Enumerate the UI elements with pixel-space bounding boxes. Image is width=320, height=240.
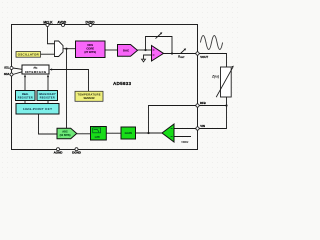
pin DGND <box>75 148 78 151</box>
pin SDA <box>10 73 13 76</box>
pin VOUT <box>196 52 199 55</box>
wire LPF to ADC <box>77 133 91 135</box>
svg-text:DDS: DDS <box>87 43 93 47</box>
impedance arrow <box>216 67 233 97</box>
pin DVDD <box>89 24 92 27</box>
wire mux output to DDS <box>63 48 76 50</box>
wire real register to I2C arrow <box>24 75 26 90</box>
LPF block <box>91 127 107 141</box>
op-amp U1 transmit <box>152 46 164 62</box>
svg-text:VDD/2: VDD/2 <box>181 141 189 144</box>
pin SCL <box>10 67 13 70</box>
svg-text:RFB: RFB <box>200 101 206 105</box>
wire GAIN to LPF <box>106 132 121 134</box>
sine wave <box>200 36 222 50</box>
external wire RFB <box>199 105 226 107</box>
chip outline AD5933 <box>12 25 198 150</box>
oscillator box <box>16 52 41 58</box>
node RFB/Z junction <box>225 104 227 106</box>
GAIN block <box>121 127 136 139</box>
DAC <box>118 45 138 57</box>
ground symbol <box>142 59 146 62</box>
switch at VOUT <box>181 49 186 54</box>
node feedback tap <box>144 49 146 51</box>
wire RFB internal to amp output <box>149 106 197 134</box>
wire DFT to imag register <box>47 101 49 104</box>
svg-text:REGISTER: REGISTER <box>40 96 55 99</box>
mux <box>55 41 64 57</box>
svg-text:REGISTER: REGISTER <box>18 96 33 99</box>
svg-text:SENSOR: SENSOR <box>84 96 95 100</box>
pin MCLK <box>46 24 49 27</box>
I2C interface box <box>22 65 49 74</box>
svg-text:DAC: DAC <box>123 48 129 52</box>
external wire Z to VIN <box>199 97 226 129</box>
wire feedback loop <box>146 37 173 54</box>
svg-text:GAIN: GAIN <box>125 131 132 135</box>
pin VIN <box>196 127 199 130</box>
svg-text:MCLK: MCLK <box>43 20 53 24</box>
pin AGND <box>57 148 60 151</box>
wire ADC to DFT <box>39 114 58 134</box>
svg-text:CORE: CORE <box>86 46 94 50</box>
wire DFT to real register <box>24 101 26 104</box>
ADC block <box>57 128 77 138</box>
op-amp U2 receive <box>162 124 174 142</box>
svg-text:VOUT: VOUT <box>200 55 208 59</box>
wire MCLK pin to mux <box>48 27 55 44</box>
wire DDS to DAC <box>105 49 118 51</box>
programmable gain arrow on feedback <box>156 33 162 39</box>
wire temp sensor to I2C <box>50 70 89 92</box>
imaginary register box <box>37 91 58 101</box>
svg-text:TEMPERATURE: TEMPERATURE <box>78 92 101 96</box>
svg-text:VIN: VIN <box>200 124 205 128</box>
svg-text:LPF: LPF <box>95 135 101 139</box>
svg-text:1024-POINT DFT: 1024-POINT DFT <box>23 107 52 111</box>
svg-text:I2C: I2C <box>34 66 38 70</box>
wire clock down to ADC <box>66 49 68 129</box>
wire oscillator to mux <box>41 53 55 55</box>
wire SDA to I2C <box>13 72 22 75</box>
svg-text:AD5933: AD5933 <box>113 81 131 86</box>
svg-text:DGND: DGND <box>72 151 82 155</box>
wire DAC to amp U1 <box>138 49 152 51</box>
1024-point DFT box <box>16 104 59 115</box>
impedance Z(w) box <box>221 67 232 97</box>
svg-text:(27 BITS): (27 BITS) <box>84 50 96 54</box>
svg-text:SDA: SDA <box>4 72 10 76</box>
node RFB join <box>147 132 149 134</box>
node clock junction <box>65 48 67 50</box>
pin AVDD <box>62 24 65 27</box>
svg-text:DVDD: DVDD <box>85 20 95 24</box>
svg-text:Z(ω): Z(ω) <box>211 74 220 78</box>
wire imag register to I2C arrow <box>47 75 49 90</box>
svg-text:INTERFACE: INTERFACE <box>25 70 46 74</box>
wire RX amp output to GAIN <box>136 132 163 134</box>
wire amp VDD/2 input <box>174 136 191 138</box>
svg-text:(12 BITS): (12 BITS) <box>60 134 71 137</box>
svg-text:AVDD: AVDD <box>57 20 66 24</box>
node amp output <box>171 52 173 54</box>
DDS core block <box>76 41 106 58</box>
real register box <box>16 91 36 101</box>
external wire VOUT to Z <box>199 54 226 68</box>
svg-text:AGND: AGND <box>54 151 64 155</box>
pin RFB <box>196 104 199 107</box>
svg-text:SCL: SCL <box>4 66 10 70</box>
temperature sensor box <box>75 91 103 101</box>
wire amp ground input <box>144 55 152 59</box>
wire SCL to I2C <box>13 68 22 69</box>
svg-text:OSCILLATOR: OSCILLATOR <box>18 53 39 57</box>
wire VIN internal to amp input <box>174 128 197 130</box>
wire amp output to VOUT pin <box>164 53 197 55</box>
